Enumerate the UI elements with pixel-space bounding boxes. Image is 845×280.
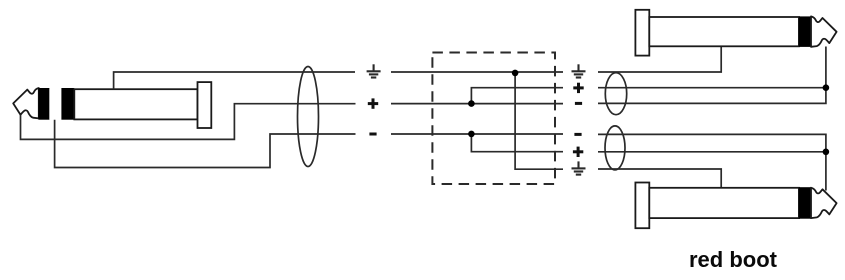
svg-text:red boot: red boot: [689, 247, 778, 272]
junction dot: ground split: [512, 70, 519, 77]
minus label (right column, bottom): [574, 133, 581, 135]
plug J2 TS mono jack (top right) : collar: [635, 10, 649, 56]
wire: ground to J2 sleeve: [598, 46, 721, 72]
plug J2 tip contact: [811, 16, 837, 46]
plus label (right column, top): [573, 83, 583, 93]
plug J1 TRS stereo jack (left) : tip contact: [13, 88, 39, 118]
junction dot: J3 tip node: [823, 149, 830, 156]
plug J1 collar: [198, 82, 212, 128]
wire: J1 ring to - line: [55, 120, 356, 168]
wire: + line to J3 tip: [598, 151, 826, 153]
ground symbol (left column): [367, 64, 381, 77]
plus label (right column, bottom): [573, 147, 583, 157]
minus label (left column): [369, 133, 376, 135]
minus label (right column, top): [575, 102, 582, 104]
wire: J1 tip to + line: [21, 104, 356, 140]
cable oval (top branch cable): [605, 73, 626, 115]
ground symbol (right column, top): [572, 64, 586, 77]
wire: + branch up to top cable: [471, 88, 563, 104]
plug J3 sleeve barrel: [649, 188, 799, 218]
plug J3 insulator band: [799, 187, 811, 219]
cable oval (main cable): [298, 67, 319, 167]
wire: ground to J3 sleeve: [598, 169, 721, 188]
plug J3 tip contact: [811, 188, 837, 218]
cable oval (bottom branch cable): [605, 126, 625, 170]
wire: ground branch to lower cable: [515, 73, 563, 169]
wire: + line to J2 tip: [598, 87, 826, 89]
ground symbol (right column, bottom): [572, 161, 586, 174]
plus label (left column): [368, 98, 378, 108]
plug J1 insulator band 1: [38, 88, 49, 120]
wire: - line joining J2 tip: [598, 47, 826, 104]
junction dot: J2 tip node: [823, 84, 830, 91]
wire: - branch down to lower cable: [471, 134, 563, 152]
plug J3 TS mono jack (bottom right) : collar: [635, 183, 649, 229]
plug J1 insulator band 2: [61, 88, 74, 120]
wire: J1 sleeve to shield/ground line: [114, 72, 355, 89]
junction box (dashed): [432, 53, 555, 185]
wire: ground net through box: [391, 71, 563, 73]
plug J1 sleeve barrel: [74, 89, 197, 119]
junction dot: + split: [468, 100, 475, 107]
plug J2 sleeve barrel: [649, 17, 799, 46]
wire: - net through box: [391, 133, 563, 135]
junction dot: - split: [468, 131, 475, 138]
plug J2 insulator band: [799, 16, 811, 47]
plug J1 ring contact (white gap): [49, 89, 61, 120]
wire: + net through box: [391, 103, 563, 105]
wire: - line joining J3 tip: [598, 134, 826, 190]
